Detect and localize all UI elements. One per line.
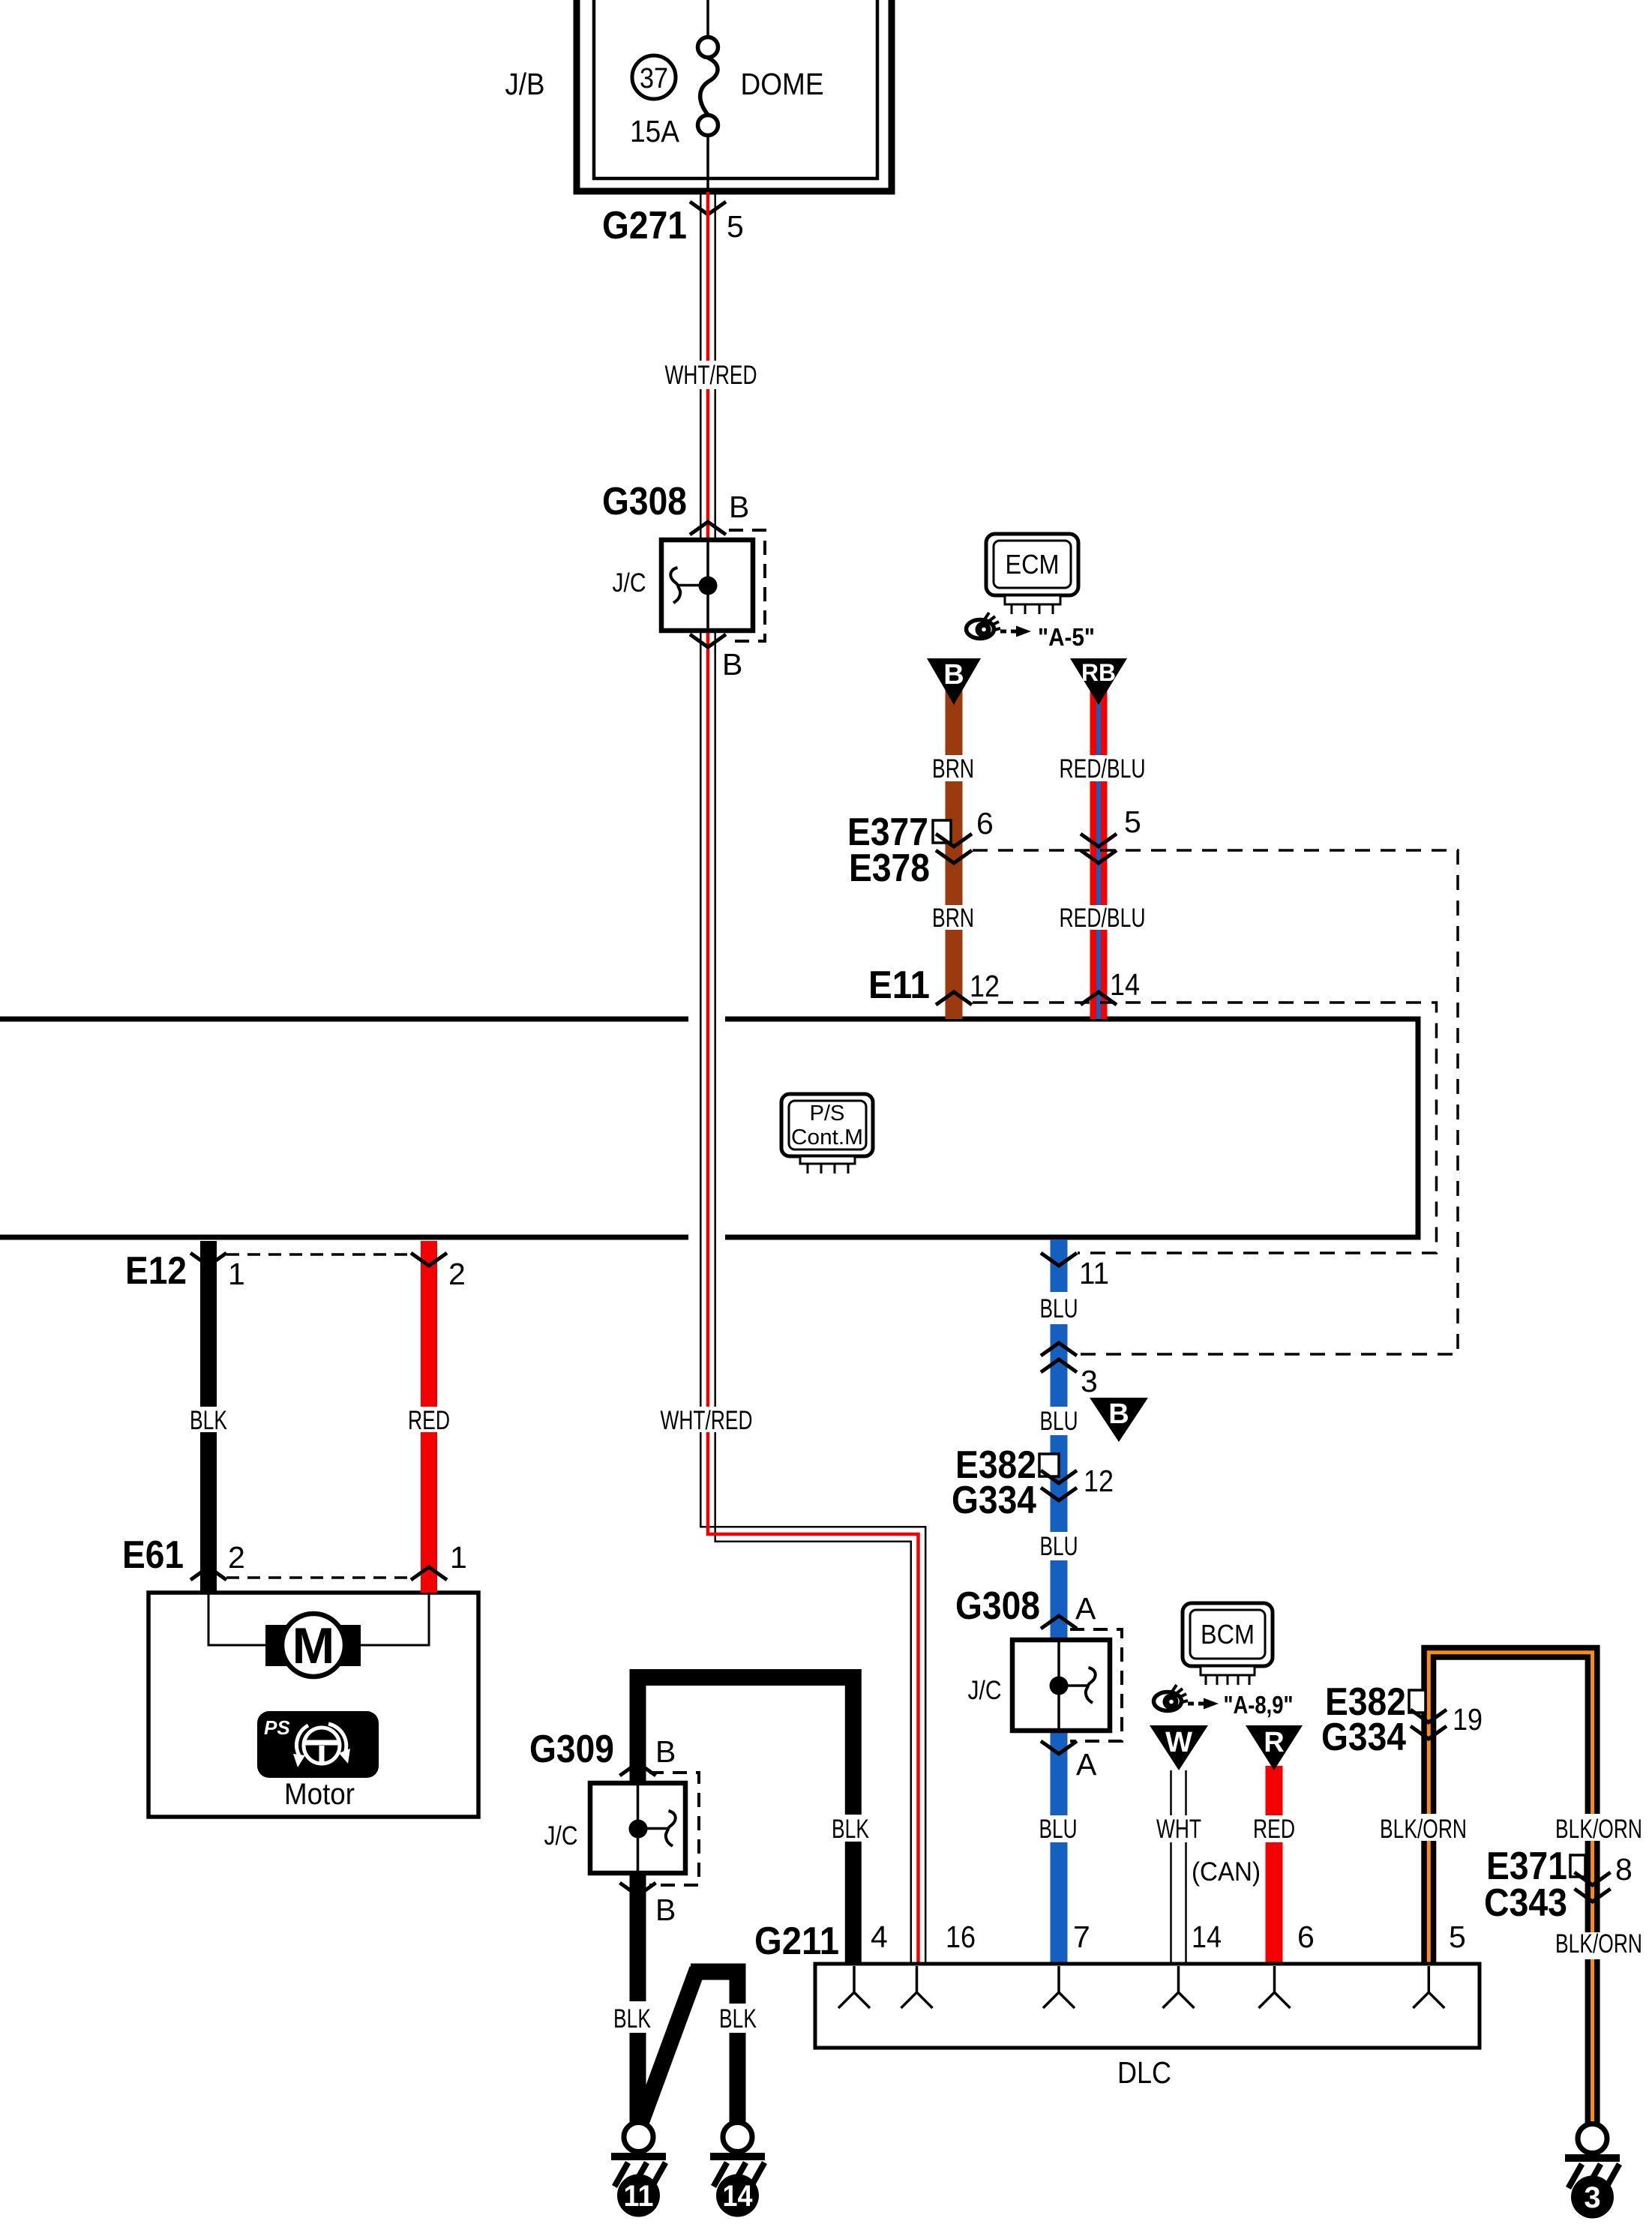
svg-text:J/C: J/C — [613, 568, 646, 598]
svg-text:RED: RED — [408, 1406, 450, 1435]
motor internal wiring — [208, 1593, 429, 1645]
wire BLK diagonal to ground 11 — [641, 1969, 697, 2122]
svg-text:B: B — [943, 659, 964, 691]
svg-text:ECM: ECM — [1006, 549, 1060, 580]
svg-text:B: B — [655, 1734, 676, 1769]
fuse F37 element — [706, 0, 709, 37]
svg-text:DOME: DOME — [741, 67, 824, 101]
svg-text:BRN: BRN — [932, 904, 974, 933]
svg-text:BLU: BLU — [1040, 1532, 1078, 1561]
eye symbol (ECM) — [967, 613, 1001, 639]
svg-text:14: 14 — [1192, 1920, 1222, 1954]
wire WHT/RED — [700, 192, 925, 1964]
eye symbol (BCM) — [1154, 1685, 1189, 1711]
svg-text:A: A — [1076, 1747, 1097, 1782]
svg-text:J/C: J/C — [544, 1821, 578, 1851]
svg-text:WHT: WHT — [1156, 1815, 1201, 1844]
svg-text:3: 3 — [1081, 1364, 1098, 1398]
BCM module icon — [1183, 1603, 1273, 1666]
svg-text:Cont.M: Cont.M — [791, 1125, 863, 1149]
svg-text:R: R — [1264, 1727, 1284, 1758]
svg-text:11: 11 — [1079, 1256, 1109, 1290]
svg-text:BLK: BLK — [613, 2004, 651, 2034]
svg-text:4: 4 — [871, 1920, 888, 1954]
wire RED (motor) — [421, 1241, 437, 1593]
svg-text:A: A — [1075, 1591, 1096, 1626]
svg-text:G334: G334 — [952, 1479, 1036, 1522]
P/S Cont.M icon — [781, 1094, 873, 1156]
svg-text:WHT/RED: WHT/RED — [665, 361, 757, 390]
G308 lower J/C box — [1012, 1640, 1110, 1731]
svg-text:PS: PS — [264, 1716, 290, 1739]
svg-text:14: 14 — [1110, 967, 1140, 1002]
svg-text:DLC: DLC — [1117, 2055, 1171, 2090]
E377/E378 dashed harness outline — [973, 850, 1458, 1354]
G308 J/C box — [661, 540, 753, 631]
triangle W — [1150, 1725, 1208, 1770]
svg-text:Motor: Motor — [284, 1778, 355, 1811]
svg-text:1: 1 — [228, 1257, 245, 1291]
svg-text:12: 12 — [970, 969, 1000, 1003]
motor M symbol — [265, 1625, 361, 1666]
G308 dashed connector outline — [729, 530, 765, 641]
svg-text:J/C: J/C — [968, 1676, 1002, 1705]
svg-text:6: 6 — [1297, 1920, 1315, 1954]
P/S pin 11 chevron — [1041, 1253, 1077, 1266]
svg-text:BLU: BLU — [1039, 1815, 1078, 1844]
fuse box J/B outer — [577, 0, 892, 191]
ECM module icon — [986, 534, 1078, 595]
svg-text:7: 7 — [1073, 1920, 1090, 1954]
svg-text:M: M — [292, 1617, 335, 1674]
svg-text:"A-5": "A-5" — [1038, 623, 1095, 651]
wire BLK below G309 — [630, 1873, 646, 2001]
svg-text:BCM: BCM — [1201, 1619, 1255, 1650]
svg-text:BLK: BLK — [719, 2004, 757, 2034]
wire BLK (motor) — [200, 1241, 217, 1593]
svg-text:6: 6 — [976, 806, 994, 841]
motor box — [148, 1593, 478, 1817]
svg-text:RED/BLU: RED/BLU — [1060, 754, 1146, 784]
svg-text:3: 3 — [1584, 2181, 1600, 2214]
wire BLK to G211 pin 4 — [638, 1677, 853, 1815]
wire BRN — [946, 670, 963, 1019]
G309 J/C box — [590, 1783, 685, 1873]
DLC pin terminals — [838, 1966, 1444, 2008]
svg-text:W: W — [1165, 1727, 1192, 1758]
svg-text:8: 8 — [1615, 1852, 1633, 1887]
ground 14 — [710, 2123, 765, 2217]
triangle RB (RED/BLU to ECM) — [1070, 658, 1127, 705]
svg-text:G308: G308 — [602, 480, 687, 523]
E11 dashed connector outline — [973, 1003, 1437, 1253]
svg-text:(CAN): (CAN) — [1192, 1857, 1261, 1887]
fuse 37 number circle — [632, 55, 676, 99]
svg-text:C343: C343 — [1484, 1881, 1567, 1925]
svg-text:11: 11 — [624, 2180, 654, 2213]
ground 11 — [611, 2123, 666, 2217]
svg-text:2: 2 — [448, 1257, 466, 1291]
fuse box J/B inner — [594, 0, 877, 178]
wire BLU — [1051, 1239, 1068, 1964]
svg-text:"A-8,9": "A-8,9" — [1224, 1691, 1294, 1719]
svg-text:16: 16 — [946, 1920, 976, 1954]
svg-text:BRN: BRN — [932, 754, 974, 784]
dashed arrow A-8,9 — [1188, 1702, 1204, 1706]
svg-text:BLK: BLK — [832, 1815, 869, 1844]
svg-text:12: 12 — [1084, 1464, 1114, 1498]
svg-text:E61: E61 — [122, 1533, 184, 1577]
svg-text:RED/BLU: RED/BLU — [1060, 904, 1146, 933]
svg-text:E12: E12 — [125, 1249, 187, 1293]
svg-text:J/B: J/B — [505, 67, 545, 101]
svg-text:5: 5 — [1124, 805, 1141, 839]
svg-text:G308: G308 — [955, 1584, 1040, 1628]
svg-text:BLK/ORN: BLK/ORN — [1555, 1815, 1642, 1844]
svg-text:G271: G271 — [602, 204, 687, 247]
svg-text:G334: G334 — [1321, 1716, 1406, 1759]
wire RED (CAN) — [1266, 1766, 1283, 1964]
svg-text:B: B — [1108, 1398, 1129, 1430]
wire RED/BLU — [1090, 670, 1108, 1019]
P/S control module box — [0, 1019, 1418, 1237]
svg-text:19: 19 — [1453, 1702, 1483, 1737]
svg-text:P/S: P/S — [810, 1102, 845, 1125]
svg-text:RB: RB — [1081, 659, 1116, 686]
DLC box — [815, 1964, 1480, 2048]
svg-text:BLK/ORN: BLK/ORN — [1555, 1929, 1642, 1959]
wire WHT (CAN) — [1171, 1770, 1186, 1964]
svg-text:RED: RED — [1253, 1815, 1295, 1844]
gaps in P/S box border for WHT/RED wire crossing — [688, 1014, 725, 1024]
PS motor icon — [257, 1711, 379, 1778]
triangle B (BLU) — [1090, 1398, 1148, 1442]
svg-text:WHT/RED: WHT/RED — [661, 1406, 753, 1435]
svg-text:BLK/ORN: BLK/ORN — [1380, 1815, 1467, 1844]
svg-text:B: B — [655, 1893, 676, 1927]
svg-text:15A: 15A — [630, 114, 680, 148]
svg-text:B: B — [729, 490, 749, 524]
triangle B (BRN to ECM) — [927, 658, 981, 705]
svg-text:B: B — [722, 647, 742, 682]
svg-text:BLK: BLK — [190, 1406, 227, 1435]
svg-text:E378: E378 — [849, 847, 930, 890]
svg-text:E11: E11 — [868, 964, 930, 1007]
svg-text:5: 5 — [1449, 1920, 1466, 1954]
ground 3 — [1565, 2124, 1620, 2219]
svg-text:1: 1 — [450, 1540, 467, 1575]
wire BLK inverted U to ground 14 — [691, 1972, 738, 2004]
svg-text:14: 14 — [723, 2180, 754, 2213]
svg-text:G211: G211 — [754, 1920, 839, 1963]
svg-text:37: 37 — [640, 63, 668, 94]
svg-text:5: 5 — [727, 209, 744, 244]
svg-text:G309: G309 — [529, 1728, 614, 1771]
connector 3 double chevron — [1041, 1343, 1077, 1356]
svg-text:2: 2 — [228, 1540, 245, 1575]
svg-text:BLU: BLU — [1040, 1407, 1078, 1436]
svg-text:BLU: BLU — [1040, 1294, 1078, 1323]
G308 lower dashed connector outline — [1070, 1629, 1122, 1741]
G309 dashed connector outline — [649, 1773, 699, 1885]
wire BLK/ORN loop — [1429, 1653, 1592, 2124]
dashed arrow A-5 — [1000, 630, 1016, 634]
triangle R — [1246, 1725, 1303, 1770]
